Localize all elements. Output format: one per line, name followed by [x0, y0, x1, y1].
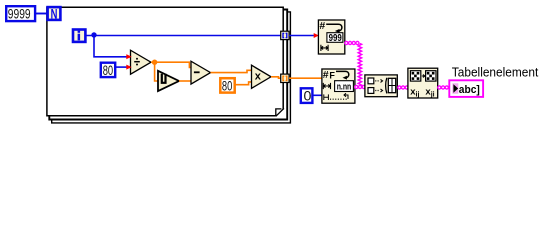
svg-text:9999: 9999: [8, 7, 31, 23]
iteration terminal i: [73, 30, 85, 42]
coercion arrow divide bottom input: [126, 65, 131, 70]
wire ramp down to build array (zigzag): [358, 44, 361, 88]
wire 80 orange to multiply: [235, 82, 252, 85]
wire ramp output (string array beads): [346, 41, 359, 45]
numeric constant 0: [301, 88, 313, 104]
svg-text:Tabellenelement: Tabellenelement: [452, 65, 539, 80]
svg-text:#: #: [319, 20, 325, 32]
wire junction dot on i wire: [91, 32, 96, 37]
transpose 2d array node: [408, 68, 438, 98]
wire blue tunnel to ramp node: [289, 35, 315, 37]
svg-text:999: 999: [329, 32, 342, 44]
subtract function: [191, 61, 211, 84]
wire transpose to indicator (beads): [439, 85, 448, 89]
indicator terminal Tabellenelement (string table): [449, 80, 483, 97]
coercion arrow divide top input: [126, 54, 131, 59]
numeric constant 80 (orange): [220, 78, 234, 94]
wire divide output to subtract: [151, 62, 191, 67]
svg-text:ij: ij: [416, 92, 420, 99]
for loop resize corner fold: [276, 108, 284, 116]
wire 80 to divide: [116, 66, 131, 68]
divide function: [131, 50, 152, 74]
number to fractional string node: [322, 69, 355, 103]
wire branch down to floor node: [155, 62, 159, 81]
wire 9999 to N: [35, 13, 47, 15]
svg-text:#: #: [323, 69, 329, 81]
build array node: [365, 75, 397, 97]
wire build array to transpose (beads): [399, 85, 407, 89]
svg-text:abc]: abc]: [459, 84, 480, 96]
round toward -infinity (floor): [158, 71, 179, 91]
svg-text:ji: ji: [430, 92, 435, 99]
wire orange tunnel to n.nn node: [289, 77, 322, 79]
svg-text:80: 80: [103, 63, 113, 79]
svg-text:F: F: [329, 70, 335, 80]
coercion arrow ramp input: [314, 33, 319, 38]
numeric constant 9999: [6, 6, 35, 22]
wire 0 to n.nn node: [312, 94, 322, 96]
multiply function: [252, 65, 272, 88]
svg-text:0: 0: [304, 89, 312, 105]
svg-text:x: x: [255, 70, 262, 82]
for loop border: [47, 7, 291, 123]
wire branch from i down to divide: [94, 36, 131, 57]
loop count terminal N: [48, 7, 61, 22]
wire n.nn output to build array (beads): [356, 85, 364, 89]
svg-text:80: 80: [222, 79, 232, 95]
wire i to tunnel: [86, 35, 281, 37]
wire floor output to subtract: [179, 80, 191, 82]
numeric constant 80 (blue): [101, 63, 115, 79]
tunnel (blue, indexing): [281, 31, 289, 39]
tunnel (orange, indexing): [281, 74, 289, 82]
svg-text:N: N: [51, 7, 58, 22]
junction dot on divide output: [152, 60, 157, 65]
svg-text:n.nn: n.nn: [337, 82, 352, 92]
wire subtract output to multiply: [211, 70, 252, 72]
ramp pattern node: [318, 20, 344, 54]
wire multiply output to tunnel: [271, 77, 281, 78]
